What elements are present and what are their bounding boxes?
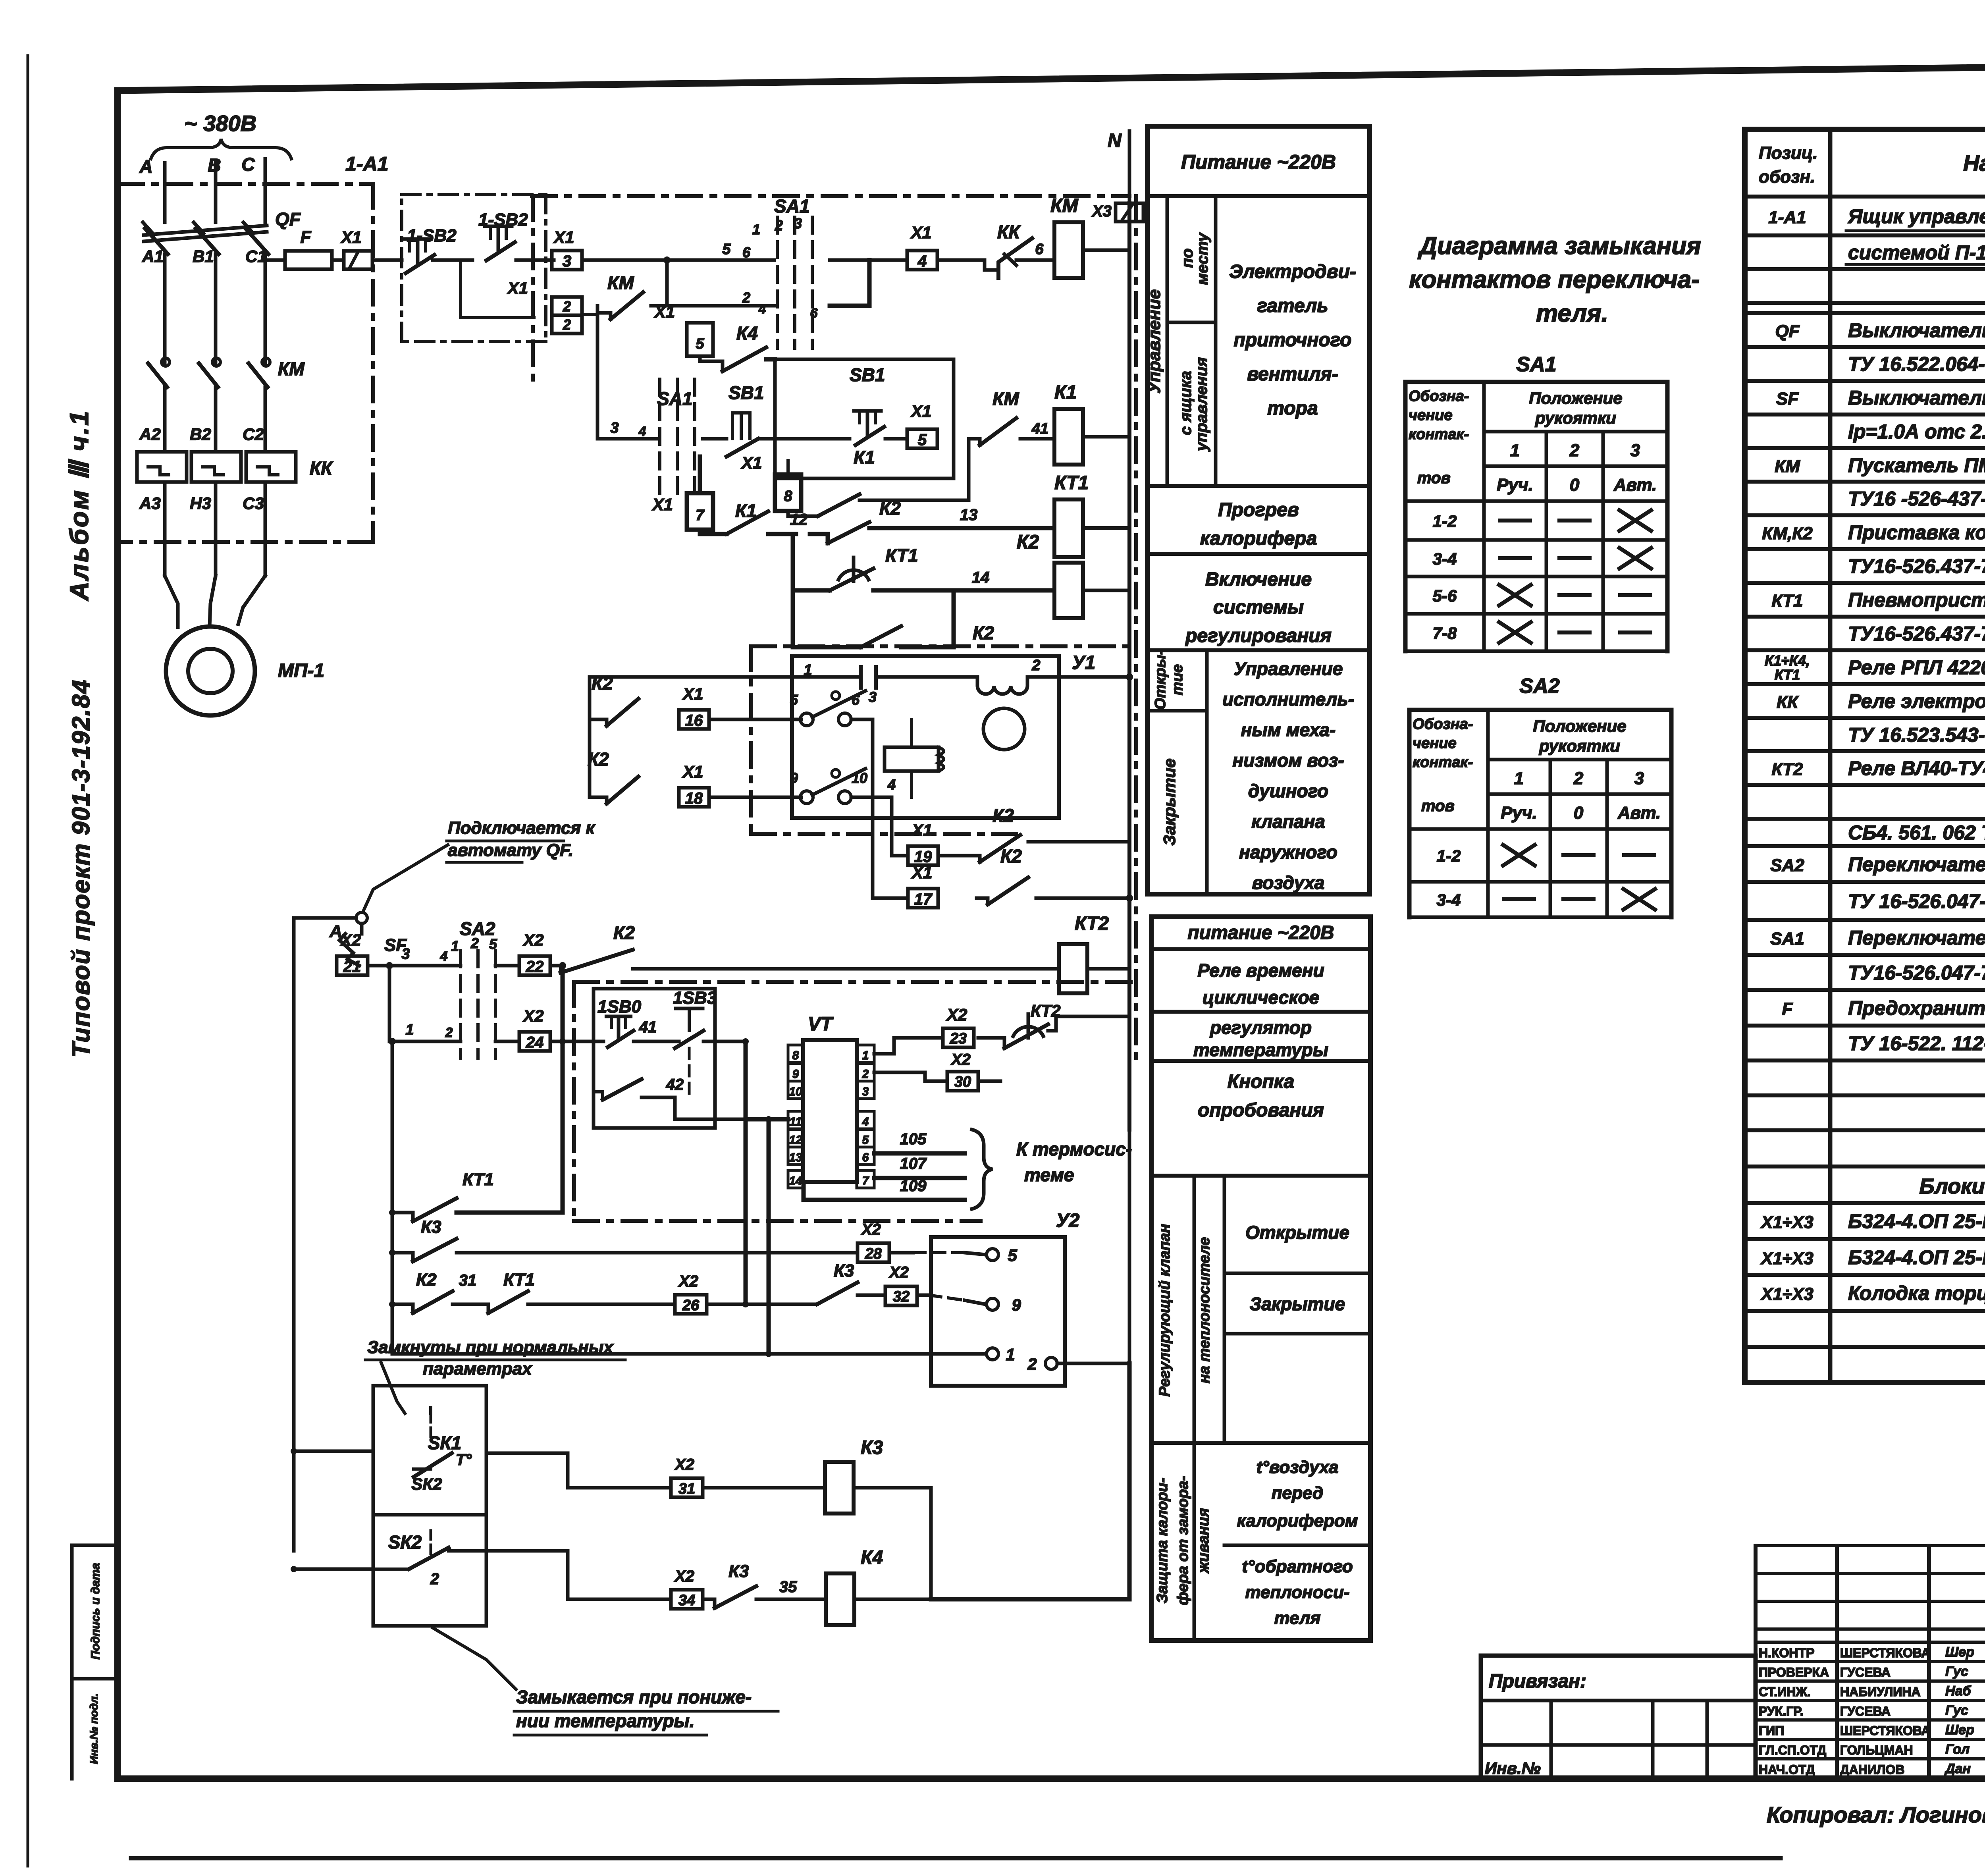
enclosure dash-dot below U1 [751,832,1016,836]
X1 terminal 8 vertical [775,474,801,511]
svg-text:управления: управления [1193,357,1210,452]
svg-text:ГИП: ГИП [1759,1724,1784,1738]
svg-text:К3: К3 [861,1437,883,1458]
svg-text:тие: тие [1169,664,1186,695]
button 1-SB2a [404,237,431,241]
U2 device box [931,1237,1065,1386]
button 1-SB2b [485,225,512,228]
svg-text:Х2: Х2 [340,931,361,949]
long row to U2-1 [392,1352,985,1356]
svg-text:1: 1 [862,1049,869,1062]
long junction vertical x1417 [561,966,565,1213]
KM aux contact row4 [969,437,980,441]
svg-text:К1: К1 [735,500,757,521]
wire row B through box [550,1040,603,1043]
U1 device box [792,656,1059,818]
svg-text:28: 28 [865,1246,882,1262]
svg-text:1: 1 [752,221,760,237]
svg-text:8: 8 [792,1049,799,1062]
svg-text:низмом воз-: низмом воз- [1232,750,1344,771]
svg-text:1SВ0: 1SВ0 [597,997,642,1016]
wire down to row 3410 [767,1119,771,1354]
svg-text:ТУ 16-522. 112-74: ТУ 16-522. 112-74 [1848,1032,1985,1055]
KT1 contact row [392,1213,413,1221]
svg-text:SА1: SА1 [1516,353,1556,376]
svg-text:1: 1 [1006,1345,1015,1364]
svg-text:Закрытие: Закрытие [1160,758,1179,846]
SF terminal circle [356,912,367,924]
row2 wire into SA1 lower [667,304,774,308]
svg-text:3: 3 [862,1085,869,1098]
KT2 contact to bus [1048,1016,1129,1031]
svg-text:30: 30 [954,1074,971,1090]
svg-text:Авт.: Авт. [1613,475,1657,495]
svg-text:Дан: Дан [1944,1761,1971,1776]
wire from 1SB row down right [744,1041,748,1304]
svg-text:А2: А2 [139,425,161,443]
svg-text:107: 107 [900,1155,927,1172]
U1 node 4 vertical [890,797,894,856]
svg-text:1: 1 [1510,441,1520,460]
row A wire and junction [368,964,461,968]
time relay coil KT2 [1059,944,1087,993]
row2 X1 terminals 2/2 stacked [552,297,582,315]
svg-text:1: 1 [405,1022,414,1038]
svg-text:рукоятки: рукоятки [1539,737,1620,755]
right bus N vertical [1127,203,1131,1130]
svg-text:Колодка торцевая КТ5У ТУ16-526: Колодка торцевая КТ5У ТУ16-526.462-79 [1848,1282,1985,1304]
contactor KM poles [163,359,167,363]
breaker QF [163,254,167,359]
svg-text:ДАНИЛОВ: ДАНИЛОВ [1840,1762,1904,1777]
X2 terminal 31 [671,1478,703,1497]
lower column: regulyator temperatury [1151,1059,1370,1063]
K2 contact row A [550,964,561,968]
svg-text:11: 11 [789,1115,802,1128]
terminal Х1 pin 3 [552,251,582,270]
svg-text:МП-1: МП-1 [278,660,324,681]
svg-text:Х2: Х2 [522,1006,543,1025]
KK thermal contact [937,260,998,270]
svg-text:4: 4 [917,253,927,270]
svg-text:F: F [1782,999,1793,1019]
svg-text:Электродви-: Электродви- [1229,261,1356,282]
svg-text:Х1: Х1 [741,453,762,472]
parts table grid [1742,129,1748,1382]
svg-text:Пускатель ПМЛ 210004, V~220В: Пускатель ПМЛ 210004, V~220В [1848,454,1985,476]
frame attribute column left line [70,1545,74,1779]
svg-text:Выключатель АЕ 2033-100УЗ Iр 8: Выключатель АЕ 2033-100УЗ Iр 8 А, ~380В [1848,319,1985,341]
svg-text:Б324-4.ОП 25-В/В УЗ-10 ТУ16-5: Б324-4.ОП 25-В/В УЗ-10 ТУ16-526.463-79 [1848,1246,1985,1269]
function column box: pitanie 220V [1147,194,1370,198]
button SB1 maintained [731,413,734,439]
row2 KM holding contact [599,311,611,315]
svg-text:К4: К4 [736,323,758,343]
bottom long wire to right [931,1597,1129,1602]
svg-text:34: 34 [678,1592,695,1609]
svg-text:5: 5 [722,241,731,258]
svg-text:4: 4 [440,949,448,964]
svg-text:К2: К2 [879,498,901,519]
local SB1 box [775,359,954,478]
svg-text:Наб: Наб [1945,1683,1971,1699]
svg-text:ТУ16-526.437-78: ТУ16-526.437-78 [1848,555,1985,577]
U1 contact 5-6 [800,713,813,726]
wire X2-28 to U2-5 [889,1251,913,1255]
svg-text:К2: К2 [1000,846,1022,866]
row B wire [389,1040,461,1043]
svg-text:К2: К2 [588,749,609,769]
svg-text:клапана: клапана [1251,811,1325,832]
svg-text:параметрах: параметрах [423,1359,532,1379]
wire to K3 coil [703,1486,825,1490]
svg-text:К2: К2 [992,805,1014,826]
svg-text:регулятор: регулятор [1209,1017,1312,1038]
svg-text:Включение: Включение [1205,569,1312,590]
svg-text:К термосис-: К термосис- [1016,1139,1132,1159]
svg-text:Ящик управления приточной: Ящик управления приточной [1847,205,1985,228]
enclosure dash-dot above U1 [751,644,1136,648]
relay coil K3 [825,1462,854,1514]
svg-text:гатель: гатель [1257,295,1328,316]
svg-text:24: 24 [526,1034,544,1051]
X1 terminal 7 vertical [687,493,713,530]
svg-text:41: 41 [1031,420,1048,437]
svg-text:22: 22 [526,958,544,976]
svg-text:В1: В1 [193,247,214,266]
svg-text:обозн.: обозн. [1759,167,1815,187]
X2 terminal 30 [947,1072,978,1091]
svg-text:1-А1: 1-А1 [345,153,388,175]
U1 relay box [885,747,939,771]
svg-text:живания: живания [1195,1508,1212,1573]
X2 terminal 32 [885,1286,917,1305]
svg-text:Реле РПЛ 42204 ~220В ТУ16-523: Реле РПЛ 42204 ~220В ТУ16-523.554-78 [1848,656,1985,679]
privyazan box [1481,1656,1756,1779]
svg-text:Н3: Н3 [190,494,211,513]
svg-text:ТУ 16.522.064-75: ТУ 16.522.064-75 [1848,353,1985,375]
svg-text:ГЛ.СП.ОТД: ГЛ.СП.ОТД [1759,1743,1826,1757]
svg-text:Х1: Х1 [654,303,675,321]
svg-text:Переключатель ПКУ3-12 С-УЗ схе: Переключатель ПКУ3-12 С-УЗ схема 0102 [1848,853,1985,875]
svg-text:7: 7 [696,507,705,524]
svg-text:вентиля-: вентиля- [1247,364,1338,385]
enclosure dash-dot mid [574,980,1136,984]
svg-text:К3: К3 [728,1562,749,1581]
svg-text:4: 4 [887,776,896,792]
U1 transformer winding [977,677,1027,694]
svg-text:Х1: Х1 [911,863,932,882]
svg-text:Позиц.: Позиц. [1759,143,1818,163]
attribute column divider [72,1544,118,1547]
svg-text:17: 17 [914,891,933,908]
svg-text:Х1: Х1 [910,223,931,242]
svg-text:душного: душного [1248,781,1328,801]
svg-text:3: 3 [610,420,619,436]
svg-text:Реле электротепловое РТЛ 10210: Реле электротепловое РТЛ 102104 [1848,690,1985,712]
svg-text:К2: К2 [1017,532,1039,553]
svg-text:SА2: SА2 [1519,675,1559,698]
svg-text:температуры: температуры [1193,1039,1328,1060]
VT bottom wire loop [770,1179,889,1195]
svg-text:Гус: Гус [1945,1703,1968,1718]
svg-text:НАБИУЛИНА: НАБИУЛИНА [1840,1685,1921,1699]
svg-text:3-4: 3-4 [1433,549,1457,568]
svg-text:Iр=1.0А отс 2.5 ТУ16-522. 11: Iр=1.0А отс 2.5 ТУ16-522. 110-74 [1848,420,1985,443]
svg-text:КМ: КМ [607,272,634,293]
K3 contact mid row [817,1295,817,1304]
svg-text:Руч.: Руч. [1501,803,1537,823]
VT pin1 wire to X2-23 [874,1038,943,1054]
svg-text:2: 2 [563,316,571,333]
svg-text:Х1÷Х3: Х1÷Х3 [1760,1284,1813,1304]
svg-text:теме: теме [1024,1165,1074,1185]
K1 contact row5 [788,511,818,516]
svg-text:Х2: Х2 [674,1568,694,1585]
svg-text:Замкнуты при нормальных: Замкнуты при нормальных [367,1338,614,1357]
thermosystem brace [972,1130,992,1209]
svg-text:5: 5 [918,431,927,449]
svg-text:К2: К2 [592,673,613,694]
junction vertical down to row B [388,966,391,1041]
node dots on bus [1126,673,1133,681]
svg-text:КК: КК [997,222,1021,242]
svg-text:тов: тов [1417,469,1451,487]
svg-text:С3: С3 [243,494,264,513]
function column upper outline [1147,126,1370,894]
svg-text:КМ: КМ [992,388,1019,409]
svg-text:5: 5 [1008,1246,1017,1265]
svg-text:С: С [241,154,255,175]
VT pin2 wire [874,1072,947,1081]
svg-text:опробования: опробования [1198,1100,1324,1121]
svg-text:Кнопка: Кнопка [1228,1071,1295,1092]
svg-text:Х1÷Х3: Х1÷Х3 [1760,1213,1813,1232]
svg-text:ным меха-: ным меха- [1241,719,1336,740]
terminal Х1 pin 16 [679,710,709,729]
svg-text:35: 35 [779,1578,797,1596]
svg-text:14: 14 [972,569,990,586]
X2 terminal 26 [675,1295,707,1314]
dash-dot lower enclosure [574,1219,981,1223]
svg-text:КТ2: КТ2 [1075,913,1109,934]
svg-text:контак-: контак- [1413,754,1473,771]
svg-text:Х3: Х3 [1091,202,1112,220]
svg-text:Х1: Х1 [682,762,703,781]
SK1 wires [294,1450,373,1453]
leader to SK1 [381,1363,405,1413]
svg-text:32: 32 [893,1288,910,1305]
terminal Х2 pin 21 [337,956,368,975]
KT2 delayed contact [978,1038,1004,1048]
lower column: rele vremeni [1151,1010,1370,1014]
svg-text:К3: К3 [834,1261,854,1280]
svg-text:3: 3 [794,215,802,231]
fuse X1 terminal [344,251,372,269]
K2 contact row to X1-16 [590,718,595,721]
wire from SA1 row down to X1-7 [694,439,695,554]
relay coil K1 [1054,409,1083,465]
svg-text:Х2: Х2 [861,1221,881,1238]
svg-text:2: 2 [1569,441,1580,460]
svg-text:автомату QF.: автомату QF. [448,841,573,860]
svg-text:нии температуры.: нии температуры. [516,1710,695,1731]
svg-text:теля.: теля. [1536,300,1608,327]
svg-text:Реле времени: Реле времени [1197,960,1324,981]
sheet left edge line [27,56,29,1866]
svg-text:КТ1: КТ1 [463,1170,494,1189]
svg-text:приточного: приточного [1234,330,1352,351]
svg-text:системы: системы [1213,597,1304,618]
svg-text:Гус: Гус [1945,1664,1968,1679]
svg-text:контак-: контак- [1409,426,1469,443]
svg-text:3: 3 [401,946,410,962]
svg-text:SК1: SК1 [428,1433,462,1453]
svg-text:8: 8 [784,488,792,505]
svg-text:Авт.: Авт. [1617,803,1661,823]
terminal Х1 pin 5 [907,429,937,448]
svg-text:2: 2 [445,1025,453,1040]
svg-text:Х1: Х1 [910,402,931,420]
zamykaetsya annotation [433,1628,516,1689]
svg-text:3-4: 3-4 [1437,891,1461,909]
svg-text:Инв.№: Инв.№ [1485,1759,1541,1778]
svg-text:Наименование: Наименование [1963,150,1985,175]
bottom second rule [131,1856,1781,1861]
svg-text:С2: С2 [243,425,264,443]
SA1 contact group upper [776,217,779,348]
svg-text:Пневмоприставка ПВЛ 1104: Пневмоприставка ПВЛ 1104 [1848,589,1985,611]
SK2 contact [430,1531,432,1554]
svg-text:Положение: Положение [1529,389,1622,407]
svg-text:Питание ~220В: Питание ~220В [1181,151,1336,173]
function column box: progrev kalorifera [1147,552,1370,556]
svg-text:ТУ 16-526.047-74: ТУ 16-526.047-74 [1848,890,1985,912]
svg-text:КК: КК [1777,692,1799,712]
svg-text:Х2: Х2 [888,1264,909,1281]
svg-text:КК: КК [310,458,333,478]
svg-text:SА2: SА2 [1770,856,1804,875]
svg-text:Диаграмма замыкания: Диаграмма замыкания [1417,232,1701,260]
function column lower outline [1151,917,1370,1641]
svg-text:ТУ 16.523.543-82: ТУ 16.523.543-82 [1848,724,1985,746]
svg-text:Защита калори-: Защита калори- [1154,1478,1171,1604]
power enclosure dash-dot box 1-A1 [119,182,373,186]
svg-text:105: 105 [900,1130,927,1148]
svg-text:SВ1: SВ1 [850,364,885,385]
K2 contact after X1-19 [969,854,980,858]
X1 terminal 5 vertical [687,323,713,356]
contactor coil KM [1054,222,1083,278]
svg-text:контактов переключа-: контактов переключа- [1409,266,1700,293]
svg-text:К1: К1 [854,447,875,468]
svg-text:Х1: Х1 [553,228,574,247]
U1 contact 9-10 [800,791,813,804]
attribute column divider 2 [72,1677,118,1681]
svg-text:4: 4 [638,424,646,439]
button station 1SB0/1SB3 box [594,989,715,1128]
svg-text:5: 5 [696,335,704,352]
svg-text:2: 2 [430,1570,439,1588]
svg-text:Х1: Х1 [507,279,528,297]
svg-text:Обозна-: Обозна- [1413,716,1473,733]
svg-text:9: 9 [790,770,798,786]
svg-text:В2: В2 [190,425,211,443]
svg-text:26: 26 [682,1297,700,1314]
svg-text:Открытие: Открытие [1245,1222,1349,1243]
svg-text:QF: QF [275,209,301,229]
svg-text:Х2: Х2 [674,1456,694,1473]
svg-text:9: 9 [792,1068,799,1081]
SA2 contact table [1409,708,1671,712]
svg-text:12: 12 [790,511,808,528]
svg-text:5-6: 5-6 [1433,586,1457,605]
capacitor in U1 [859,667,863,688]
svg-text:К2: К2 [416,1270,437,1290]
K2 selfhold contact row8 [793,590,861,647]
svg-text:с ящика: с ящика [1177,371,1195,435]
svg-text:Закрытие: Закрытие [1250,1294,1345,1314]
svg-text:5: 5 [489,936,497,952]
K3 contact row [392,1253,413,1261]
svg-text:6: 6 [862,1151,869,1164]
thermal relay KK heaters [137,452,187,482]
svg-text:F: F [301,228,312,247]
SK1 right wire to X2-31 row [486,1453,671,1488]
terminal Х1 pin 19 [908,846,938,865]
svg-text:13: 13 [960,506,978,524]
svg-text:5: 5 [790,692,798,708]
svg-text:НАЧ.ОТД: НАЧ.ОТД [1759,1762,1815,1777]
svg-text:1: 1 [1514,769,1524,788]
svg-text:наружного: наружного [1239,842,1337,862]
lower column: otkrytie box [1224,1272,1370,1275]
svg-text:3: 3 [1630,441,1640,460]
terminal Х2 pin 24 [519,1032,550,1051]
function column box: vklyuchenie sistemy [1147,648,1370,652]
380V brace [151,139,291,159]
svg-text:6: 6 [1035,241,1044,258]
svg-text:Н.КОНТР: Н.КОНТР [1759,1646,1814,1660]
svg-text:ТУ16 -526-437- 78: ТУ16 -526-437- 78 [1848,488,1985,510]
svg-text:SВ1: SВ1 [728,382,764,403]
svg-text:Х1: Х1 [340,228,361,247]
svg-text:Подключается к: Подключается к [448,818,596,838]
svg-text:РУК.ГР.: РУК.ГР. [1759,1704,1804,1718]
row4 left leader [597,437,659,441]
svg-text:Положение: Положение [1533,717,1626,735]
svg-text:1-А1: 1-А1 [1768,208,1806,227]
svg-text:Регулирующий клапан: Регулирующий клапан [1156,1224,1173,1396]
svg-text:Инв.№ подл.: Инв.№ подл. [88,1693,100,1764]
K2-31-KT1 row [392,1304,413,1313]
leader to SF [363,845,448,911]
svg-text:21: 21 [343,958,361,976]
wire row1 to SA1 [582,258,774,262]
lower column: zakrytie box [1224,1332,1370,1336]
svg-text:Замыкается при пониже-: Замыкается при пониже- [516,1687,752,1707]
svg-text:6: 6 [852,692,860,708]
svg-text:Альбом Ⅲ ч.1: Альбом Ⅲ ч.1 [64,409,94,602]
svg-text:А3: А3 [139,494,161,513]
svg-text:К1: К1 [1054,382,1077,403]
svg-text:У1: У1 [1072,652,1095,673]
wire C1 to 1-SB2 [265,258,278,262]
svg-text:7-8: 7-8 [1433,624,1457,642]
svg-text:Откры-: Откры- [1152,650,1169,710]
svg-text:t°воздуха: t°воздуха [1256,1458,1338,1477]
svg-text:Копировал: Логинова: Копировал: Логинова [1767,1802,1985,1827]
